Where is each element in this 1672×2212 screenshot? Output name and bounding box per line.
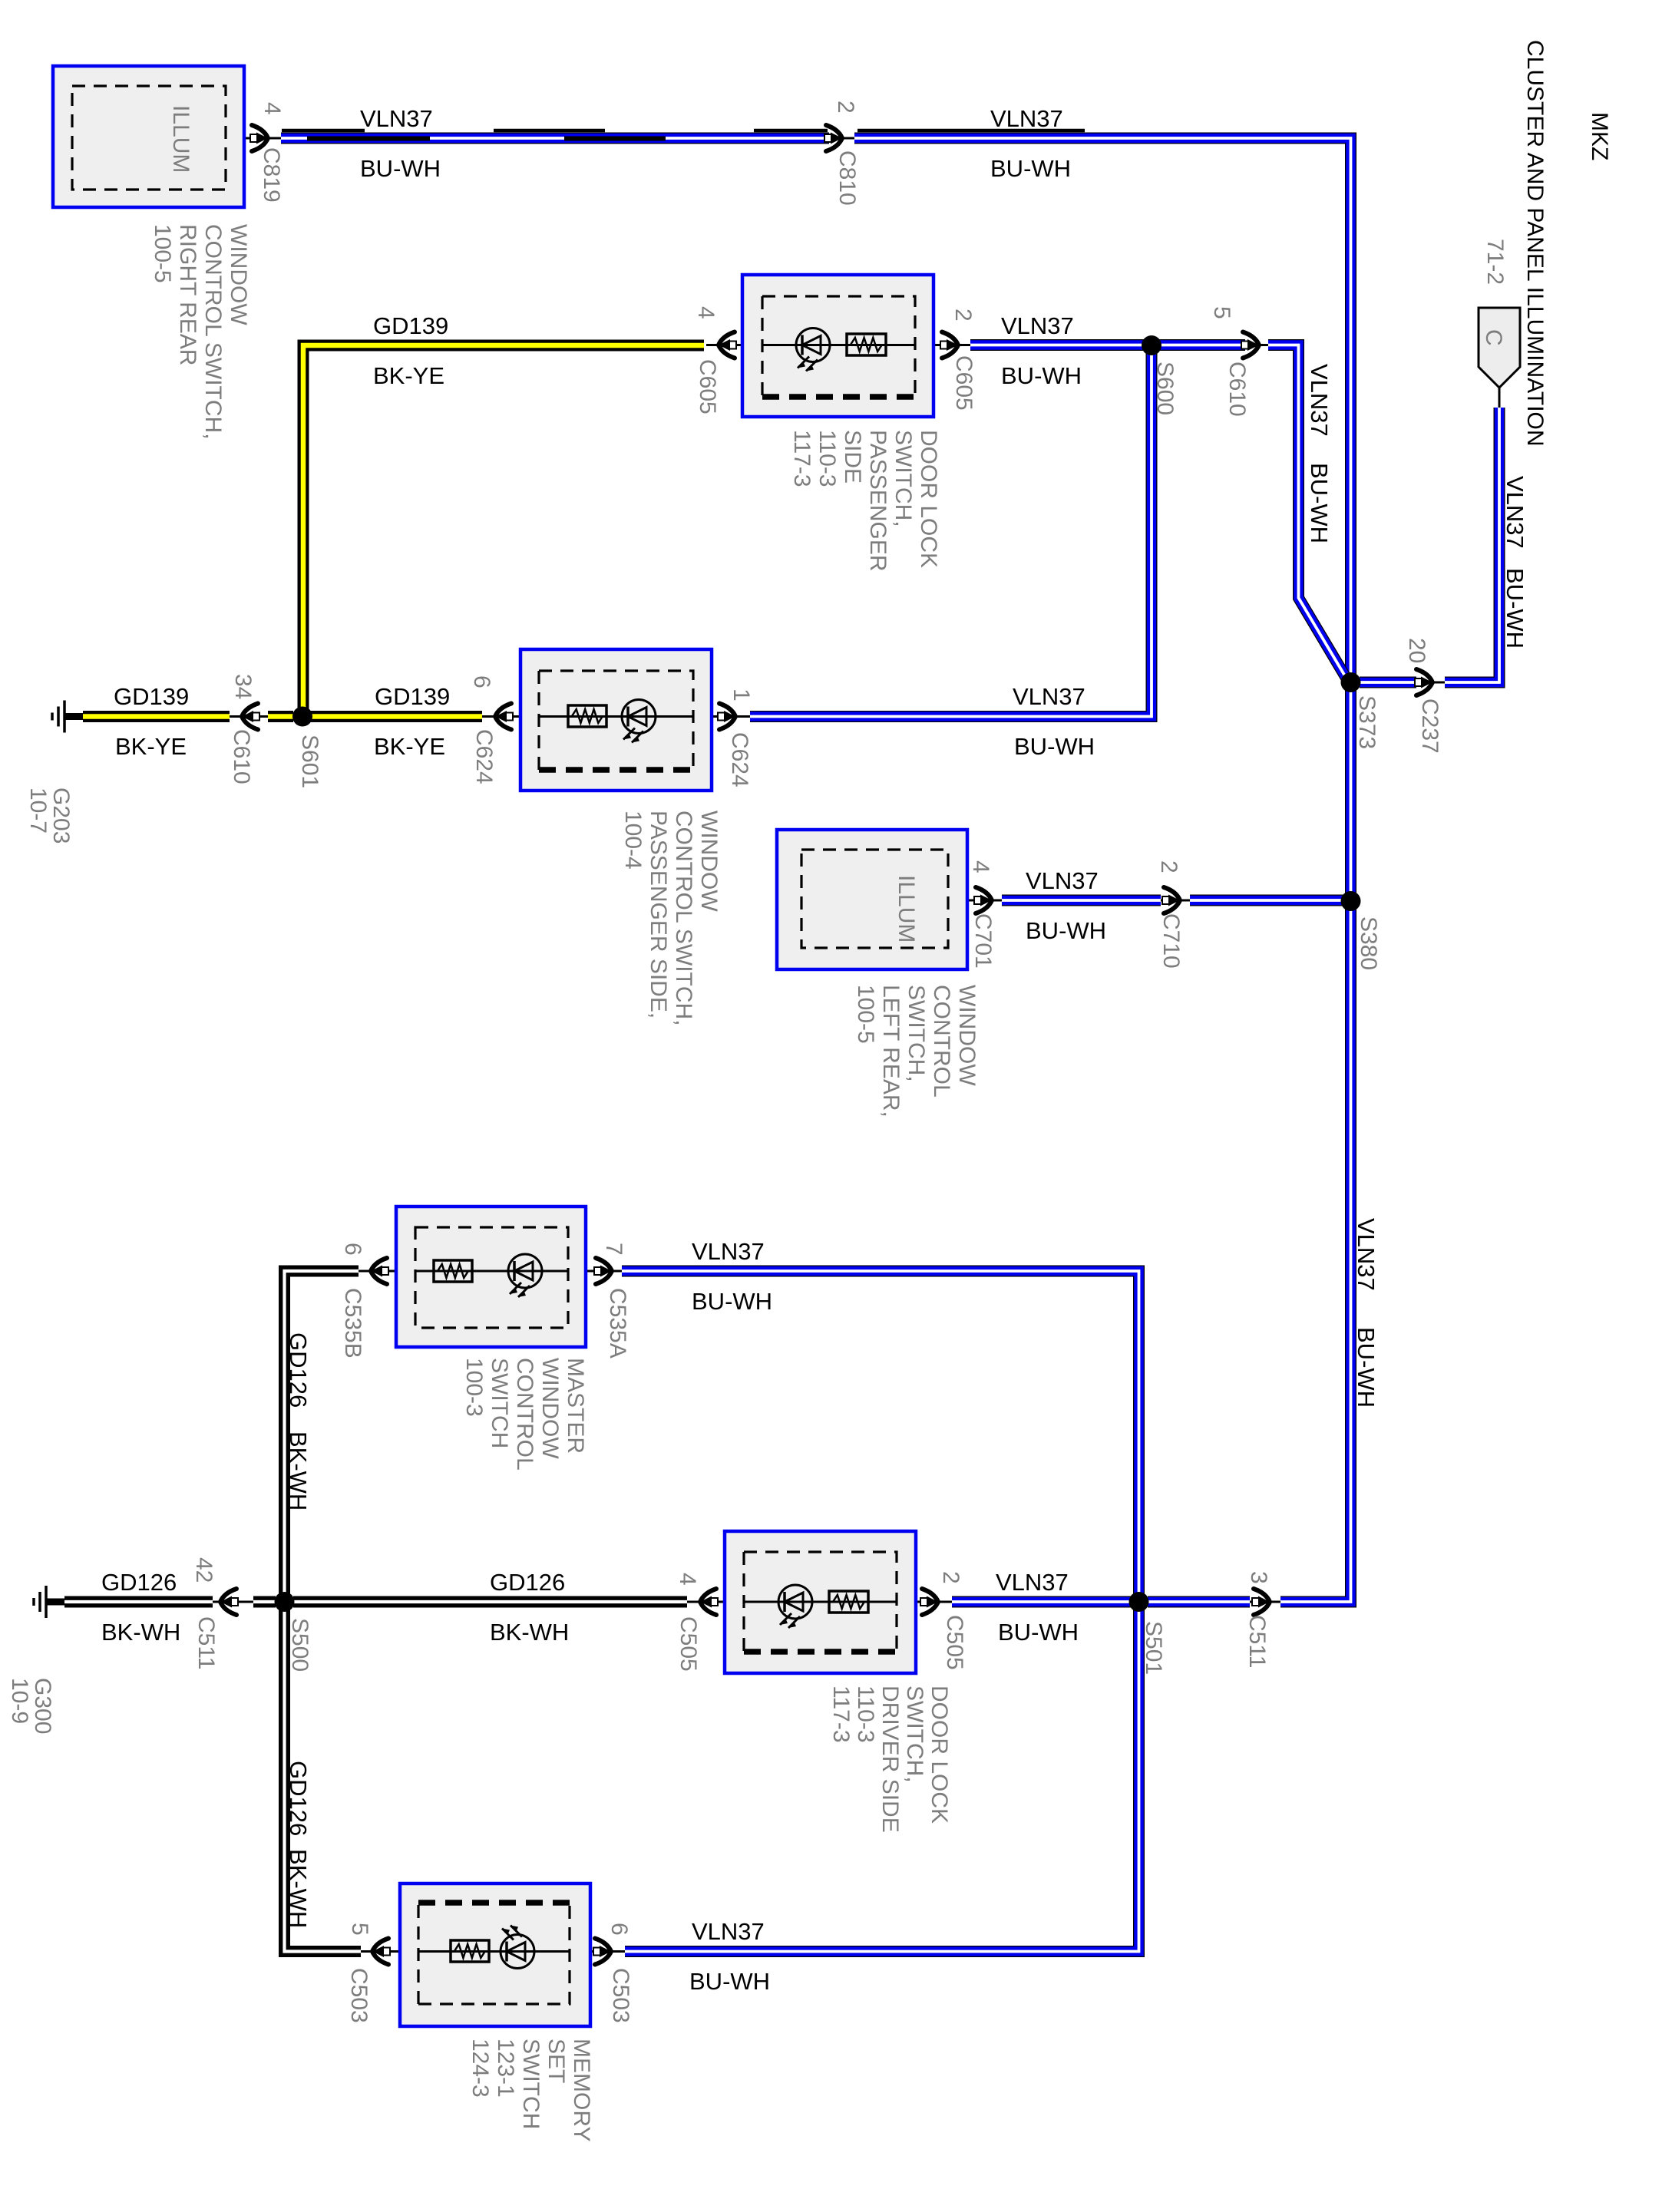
- connector C810 pin 2 arrow: [824, 125, 842, 151]
- connector C503 pin 6 arrow: [593, 1939, 611, 1965]
- svg-text:MKZ: MKZ: [1587, 112, 1612, 160]
- svg-text:2: 2: [938, 1571, 963, 1584]
- svg-text:BU-WH: BU-WH: [1001, 362, 1082, 389]
- wire VLN37 BU-WH C505-S501: [952, 1596, 1143, 1608]
- svg-text:ILLUM: ILLUM: [168, 105, 193, 173]
- connector C819 pin 4 arrow: [250, 125, 268, 151]
- wire VLN37 BU-WH C710-S380: [1190, 895, 1350, 906]
- svg-text:100-5: 100-5: [150, 224, 175, 283]
- svg-text:VLN37: VLN37: [1353, 1218, 1380, 1291]
- svg-text:BU-WH: BU-WH: [990, 155, 1071, 182]
- svg-text:MEMORY: MEMORY: [569, 2039, 594, 2141]
- svg-text:LEFT REAR,: LEFT REAR,: [878, 985, 904, 1118]
- svg-text:BK-YE: BK-YE: [115, 733, 187, 760]
- svg-text:2: 2: [1156, 860, 1181, 873]
- wire lead through memory set switch: [361, 1950, 625, 1953]
- svg-text:BU-WH: BU-WH: [360, 155, 441, 182]
- wire GD126 BK-WH S500-C505: [293, 1596, 687, 1608]
- wire lead through window control switch passenger: [482, 715, 750, 718]
- svg-text:4: 4: [968, 860, 993, 873]
- label door lock switch passenger side: [789, 430, 941, 572]
- wire VLN37 BU-WH C605-S600-C610: [970, 339, 1245, 351]
- wire pin lead C819: [226, 137, 281, 140]
- svg-text:PASSENGER SIDE,: PASSENGER SIDE,: [646, 811, 671, 1019]
- connector C505 pin 4 arrow: [700, 1589, 718, 1615]
- svg-text:VLN37: VLN37: [692, 1238, 765, 1265]
- label door lock switch driver side: [828, 1685, 952, 1833]
- svg-text:SWITCH: SWITCH: [518, 2039, 544, 2129]
- svg-text:BK-WH: BK-WH: [285, 1849, 312, 1928]
- label master window control switch: [461, 1358, 588, 1471]
- wire VLN37 BU-WH S600 to C624: [750, 345, 1152, 717]
- svg-text:BK-WH: BK-WH: [101, 1619, 180, 1646]
- wire lead through C237: [1416, 682, 1445, 684]
- door lock switch driver side box: [725, 1531, 916, 1673]
- svg-text:C701: C701: [970, 913, 996, 969]
- wire lead through C511 pin 3: [1250, 1601, 1280, 1603]
- svg-text:CONTROL: CONTROL: [929, 985, 954, 1098]
- svg-text:C: C: [1481, 329, 1506, 346]
- wire black dash overlay (twisted pair): [282, 130, 1085, 139]
- svg-text:CONTROL SWITCH,: CONTROL SWITCH,: [671, 811, 696, 1026]
- wire pin lead C701: [948, 900, 1002, 902]
- svg-text:BU-WH: BU-WH: [1306, 463, 1333, 543]
- wire lead through door lock switch passenger: [706, 344, 970, 346]
- master window control switch box: [396, 1207, 586, 1347]
- svg-text:S373: S373: [1354, 695, 1380, 749]
- svg-text:SWITCH,: SWITCH,: [904, 985, 929, 1082]
- svg-text:PASSENGER: PASSENGER: [865, 430, 891, 572]
- svg-text:SET: SET: [544, 2039, 569, 2083]
- svg-text:GD126: GD126: [285, 1332, 312, 1408]
- svg-text:C624: C624: [471, 729, 497, 784]
- svg-text:10-9: 10-9: [7, 1678, 32, 1724]
- svg-text:1: 1: [729, 688, 754, 702]
- svg-text:VLN37: VLN37: [990, 105, 1063, 132]
- svg-text:C511: C511: [193, 1616, 219, 1670]
- svg-text:VLN37: VLN37: [996, 1569, 1069, 1596]
- svg-text:G300: G300: [30, 1678, 55, 1734]
- wire lead through C810: [829, 137, 854, 140]
- svg-text:C505: C505: [676, 1616, 701, 1672]
- svg-text:71-2: 71-2: [1482, 239, 1508, 285]
- svg-text:BU-WH: BU-WH: [689, 1968, 770, 1995]
- svg-text:GD139: GD139: [373, 312, 448, 339]
- svg-text:C237: C237: [1417, 698, 1442, 754]
- wire lead through C610 pin 5: [1245, 344, 1268, 346]
- svg-text:WINDOW: WINDOW: [537, 1358, 563, 1459]
- wire GD126 BK-WH C535B-S500-C503: [285, 1271, 362, 1952]
- node S601: [292, 707, 312, 727]
- wire GD139 BK-YE G203-C610: [83, 711, 230, 722]
- cluster connector C pentagon: [1479, 308, 1520, 388]
- svg-text:4: 4: [693, 306, 719, 319]
- memory set switch box: [400, 1884, 590, 2026]
- wire VLN37 BU-WH C237 to cluster connector: [1445, 408, 1499, 682]
- svg-text:GD126: GD126: [285, 1761, 312, 1836]
- svg-text:VLN37: VLN37: [1026, 867, 1099, 894]
- svg-text:C610: C610: [229, 729, 254, 784]
- wire lead through C610 pin 34: [230, 715, 268, 718]
- wire GD126 BK-WH G300-C511: [64, 1596, 213, 1608]
- svg-text:4: 4: [259, 102, 285, 115]
- svg-text:BK-YE: BK-YE: [374, 733, 445, 760]
- svg-text:100-5: 100-5: [853, 985, 878, 1044]
- svg-text:3: 3: [1246, 1571, 1271, 1584]
- svg-text:CONTROL SWITCH,: CONTROL SWITCH,: [200, 224, 226, 440]
- svg-text:C605: C605: [695, 359, 720, 414]
- svg-text:S501: S501: [1141, 1621, 1166, 1675]
- connector C535A pin 7 arrow: [594, 1258, 612, 1284]
- node S501: [1129, 1592, 1149, 1612]
- svg-text:GD126: GD126: [101, 1569, 177, 1596]
- connector C511 pin 42 arrow: [220, 1589, 238, 1615]
- ground G203: [52, 701, 83, 733]
- label window control switch left rear: [853, 985, 980, 1118]
- svg-text:GD139: GD139: [114, 683, 189, 710]
- svg-text:C810: C810: [834, 150, 860, 206]
- svg-text:C624: C624: [727, 732, 752, 787]
- svg-text:4: 4: [675, 1573, 700, 1586]
- svg-text:BU-WH: BU-WH: [1026, 917, 1106, 944]
- svg-text:C710: C710: [1158, 913, 1184, 969]
- svg-text:WINDOW: WINDOW: [696, 811, 722, 912]
- svg-text:C535A: C535A: [605, 1288, 630, 1359]
- svg-text:6: 6: [606, 1923, 632, 1936]
- svg-text:C819: C819: [259, 147, 284, 203]
- node S500: [275, 1592, 295, 1612]
- label window control switch passenger side: [620, 811, 722, 1026]
- svg-text:G203: G203: [48, 787, 74, 844]
- label window control switch right rear: [150, 224, 251, 440]
- connector C505 pin 2 arrow: [920, 1589, 938, 1615]
- connector C610 pin 5 arrow: [1241, 332, 1259, 358]
- svg-text:CONTROL: CONTROL: [512, 1358, 537, 1471]
- svg-text:2: 2: [833, 101, 858, 114]
- svg-text:100-3: 100-3: [461, 1358, 487, 1417]
- wire VLN37 BU-WH S373-C237: [1360, 677, 1416, 688]
- wire lead through door lock switch driver: [687, 1601, 952, 1603]
- node S380: [1341, 891, 1361, 911]
- svg-text:123-1: 123-1: [493, 2039, 518, 2098]
- svg-text:RIGHT REAR: RIGHT REAR: [175, 224, 200, 365]
- svg-text:S380: S380: [1356, 916, 1381, 970]
- window control switch right rear (ILLUM box): [53, 66, 244, 207]
- node S600: [1142, 335, 1161, 355]
- svg-text:2: 2: [950, 309, 976, 322]
- wire VLN37 BU-WH C535A-S501-memory: [622, 1271, 1139, 1952]
- svg-text:S600: S600: [1152, 362, 1178, 415]
- wire GD139 BK-YE S601 vertical to C605: [303, 345, 704, 711]
- svg-text:BK-WH: BK-WH: [285, 1431, 312, 1510]
- svg-text:C505: C505: [942, 1615, 967, 1670]
- svg-text:BU-WH: BU-WH: [1014, 733, 1095, 760]
- wire lead cluster connector C: [1499, 388, 1501, 408]
- wire GD139 BK-YE C610-S601 stub: [268, 711, 293, 722]
- svg-text:GD139: GD139: [375, 683, 450, 710]
- svg-text:C503: C503: [608, 1968, 633, 2023]
- svg-text:BU-WH: BU-WH: [998, 1619, 1079, 1646]
- wire VLN37 BU-WH C610 jog to S373: [1268, 345, 1347, 679]
- svg-text:10-7: 10-7: [25, 787, 51, 834]
- svg-text:BK-YE: BK-YE: [373, 362, 444, 389]
- connector C624 pin 6 arrow: [495, 704, 513, 730]
- svg-text:117-3: 117-3: [789, 430, 815, 487]
- svg-text:7: 7: [601, 1243, 626, 1256]
- svg-text:124-3: 124-3: [468, 2039, 493, 2098]
- svg-text:BK-WH: BK-WH: [490, 1619, 569, 1646]
- svg-text:6: 6: [340, 1243, 365, 1256]
- connector C605 pin 2 arrow: [940, 332, 958, 358]
- svg-text:C503: C503: [346, 1968, 372, 2023]
- node S373: [1341, 672, 1361, 692]
- connector C610 pin 34 arrow: [242, 704, 259, 730]
- wire GD126 BK-WH C511-S500 stub: [253, 1596, 276, 1608]
- svg-text:SIDE: SIDE: [840, 430, 865, 484]
- connector C605 pin 4 arrow: [719, 332, 736, 358]
- svg-text:ILLUM: ILLUM: [894, 875, 919, 943]
- svg-text:20: 20: [1404, 638, 1429, 663]
- wire VLN37 BU-WH S373-S380-C511 vertical: [1280, 687, 1351, 1602]
- svg-text:VLN37: VLN37: [1013, 683, 1085, 710]
- svg-text:34: 34: [230, 674, 256, 699]
- svg-text:VLN37: VLN37: [692, 1918, 765, 1945]
- svg-text:SWITCH,: SWITCH,: [891, 430, 916, 527]
- svg-text:DRIVER SIDE: DRIVER SIDE: [877, 1685, 903, 1833]
- svg-text:6: 6: [469, 675, 494, 688]
- svg-text:MASTER: MASTER: [563, 1358, 588, 1454]
- label memory set switch: [468, 2039, 594, 2141]
- svg-text:110-3: 110-3: [815, 430, 840, 487]
- svg-text:DOOR LOCK: DOOR LOCK: [927, 1685, 952, 1824]
- svg-text:C511: C511: [1244, 1615, 1270, 1669]
- svg-text:100-4: 100-4: [620, 811, 646, 870]
- wire GD139 BK-YE S601-C624: [309, 711, 482, 722]
- wire VLN37 BU-WH C701-C710: [1002, 895, 1161, 906]
- svg-text:BU-WH: BU-WH: [1353, 1327, 1380, 1408]
- door lock switch passenger side box: [742, 275, 933, 417]
- wire lead through C511 pin 42: [213, 1601, 253, 1603]
- connector C535B pin 6 arrow: [371, 1258, 388, 1284]
- svg-text:DOOR LOCK: DOOR LOCK: [916, 430, 941, 568]
- svg-text:S601: S601: [297, 735, 322, 788]
- svg-text:SWITCH: SWITCH: [487, 1358, 512, 1448]
- ground G300: [34, 1586, 64, 1618]
- svg-text:C535B: C535B: [340, 1288, 365, 1359]
- wire lead through master window control switch: [359, 1270, 622, 1273]
- svg-text:BU-WH: BU-WH: [1502, 568, 1528, 649]
- connector C503 pin 5 arrow: [372, 1939, 390, 1965]
- svg-text:42: 42: [191, 1557, 216, 1583]
- connector C511 pin 3 arrow: [1252, 1589, 1270, 1615]
- svg-text:GD126: GD126: [490, 1569, 565, 1596]
- svg-text:CLUSTER AND PANEL ILLUMINATION: CLUSTER AND PANEL ILLUMINATION: [1522, 40, 1548, 447]
- svg-text:SWITCH,: SWITCH,: [902, 1685, 927, 1783]
- connector C237 pin 20 arrow: [1415, 669, 1432, 695]
- svg-text:VLN37: VLN37: [360, 105, 433, 132]
- svg-text:C605: C605: [951, 355, 976, 411]
- svg-text:VLN37: VLN37: [1502, 476, 1528, 549]
- connector C701 pin 4 arrow: [974, 887, 992, 913]
- wire VLN37 BU-WH C511-S501: [1148, 1596, 1250, 1608]
- svg-text:WINDOW: WINDOW: [954, 985, 980, 1086]
- wire VLN37 BU-WH C810 to S373 vertical: [854, 138, 1351, 678]
- svg-text:110-3: 110-3: [853, 1685, 878, 1743]
- window control switch passenger side box: [520, 649, 712, 791]
- connector C710 pin 2 arrow: [1162, 887, 1180, 913]
- svg-text:5: 5: [1209, 306, 1234, 319]
- wire lead through C710: [1161, 900, 1190, 902]
- svg-text:WINDOW: WINDOW: [226, 224, 251, 325]
- svg-text:117-3: 117-3: [828, 1685, 854, 1743]
- svg-text:S500: S500: [287, 1618, 312, 1672]
- svg-text:5: 5: [347, 1923, 372, 1936]
- svg-text:C610: C610: [1224, 362, 1250, 417]
- svg-text:VLN37: VLN37: [1001, 312, 1074, 339]
- svg-text:VLN37: VLN37: [1306, 364, 1333, 437]
- svg-text:BU-WH: BU-WH: [692, 1288, 772, 1315]
- connector C624 pin 1 arrow: [718, 704, 735, 730]
- wire VLN37 BU-WH C819-C810: [281, 133, 829, 144]
- window control switch left rear (ILLUM box): [777, 830, 967, 969]
